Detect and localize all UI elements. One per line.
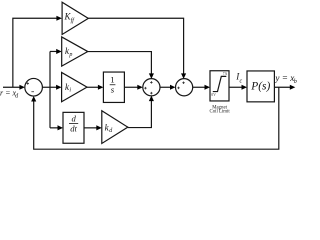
node S3 plus left [177, 87, 180, 90]
wire kp output down to S2 [88, 52, 152, 74]
saturation block Magnet Coil Limit [210, 71, 229, 101]
node saturation limit label 0V [211, 93, 216, 97]
node S1 minus sign [31, 91, 34, 93]
wire S3 to saturation [193, 86, 206, 88]
node block name Magnet Coil Limit [210, 105, 231, 114]
wire saturation to plant [229, 86, 242, 88]
arrow into S3 left [170, 85, 176, 90]
arrow into kd [96, 125, 102, 130]
node S2 plus left [144, 87, 147, 90]
arrow into S2 top [149, 73, 154, 79]
arrow into kp [56, 49, 62, 54]
gain kd [102, 111, 128, 144]
node plant label P(s) [250, 80, 270, 92]
wire into kp [50, 50, 57, 52]
svg-text:y = x: y = x [274, 73, 295, 83]
node current label I_c [235, 71, 242, 84]
wire feedback from output to S1 [34, 87, 279, 149]
svg-text:r = x: r = x [0, 89, 17, 98]
node S1 plus sign [27, 82, 30, 85]
plant P(s) [247, 71, 274, 102]
gain kp [62, 37, 88, 66]
svg-text:c: c [240, 78, 243, 84]
svg-text:p: p [68, 52, 72, 58]
gain Kff [62, 2, 88, 34]
arrow into integrator [98, 85, 104, 90]
wire into d/dt [50, 127, 58, 129]
node 1/s label [110, 75, 114, 95]
arrow into Kff [56, 16, 62, 21]
arrow into S3 top [181, 73, 186, 79]
wire input r [3, 86, 21, 88]
summing junction S1 [25, 78, 43, 96]
svg-text:s: s [111, 85, 115, 95]
gain ki [62, 72, 87, 101]
arrow into plant [242, 85, 248, 90]
svg-text:7A: 7A [223, 72, 228, 76]
summing junction S3 [176, 79, 193, 96]
wire plant output [274, 86, 290, 88]
arrow into S1 bottom [31, 96, 36, 102]
node d/dt label [70, 113, 77, 133]
integrator 1/s [103, 72, 124, 102]
arrow into saturation [205, 85, 211, 90]
svg-text:Coil Limit: Coil Limit [210, 110, 231, 115]
svg-text:dt: dt [70, 124, 77, 134]
arrow into S2 bottom [149, 96, 154, 102]
node input label r = x_d [0, 89, 18, 100]
summing junction S2 [143, 79, 160, 96]
node output label y = x_b [274, 73, 296, 85]
node S2 plus bottom [150, 92, 153, 95]
wire integrator to S2 [124, 86, 138, 88]
svg-text:d: d [15, 93, 18, 99]
wire branch vertical [49, 51, 51, 127]
node saturation limit label 7A [223, 72, 228, 76]
wire 1/s fraction bar [110, 84, 116, 86]
node kp label [65, 46, 72, 58]
node S2 plus top [150, 81, 153, 84]
node kd label [105, 122, 114, 134]
wire d/dt fraction bar [69, 123, 78, 125]
svg-text:b: b [294, 78, 297, 85]
arrow output [290, 85, 296, 90]
wire d/dt to kd [84, 127, 97, 129]
wire feedforward tap up to Kff [13, 18, 57, 87]
svg-text:0V: 0V [211, 93, 216, 97]
node Kff label [64, 12, 76, 24]
arrow into ki [56, 85, 62, 90]
node ki label [65, 82, 71, 94]
wire saturation curve [213, 76, 227, 91]
svg-text:P(s): P(s) [250, 80, 270, 92]
wire Kff output down to S3 [88, 18, 183, 74]
arrow into summing junction S1 [19, 85, 25, 90]
arrow into S2 left [137, 85, 143, 90]
node S3 plus top [182, 82, 185, 85]
differentiator d/dt [63, 112, 84, 143]
wire S1 to ki with branch node [42, 86, 57, 88]
wire ki to integrator [87, 86, 99, 88]
arrow into d/dt [58, 125, 64, 130]
svg-text:d: d [71, 113, 76, 123]
wire kd output up to S2 [128, 101, 152, 128]
wire S2 to S3 [160, 86, 171, 88]
svg-text:1: 1 [110, 75, 114, 85]
